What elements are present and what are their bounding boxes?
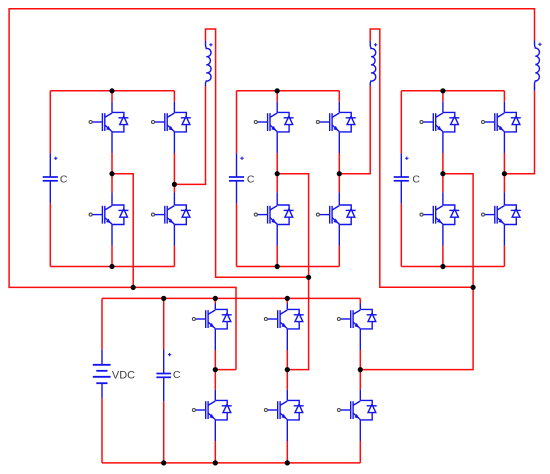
wire inverter positive DC rail [102, 297, 360, 299]
wire module3 leg2 midpoint segment [503, 153, 505, 192]
wire module2 left bus lower (from capacitor) [236, 203, 238, 266]
wire phase-A midpoint to riser [215, 369, 236, 371]
junction module2 top rail / leg1 [275, 88, 280, 93]
wire module1 left bus upper (to capacitor) [49, 91, 51, 154]
junction phase C midpoint [358, 367, 363, 372]
gate terminal of IGBT module1 upper-right [152, 121, 155, 124]
wire module1 leg2 rail to upper IGBT collector [173, 91, 175, 102]
gate terminal of IGBT inverter phase C upper [337, 318, 340, 321]
junction node L2 / H3 leg1 / phase-C [471, 285, 476, 290]
wire module3 top DC rail [401, 90, 504, 92]
junction phase B midpoint [285, 367, 290, 372]
dc source VDC [93, 350, 111, 399]
wire module1 top DC rail [50, 90, 174, 92]
inductor L2 [370, 41, 376, 86]
wire inductor L3 bottom lead down to H3 leg2 midpoint [504, 91, 534, 174]
wire module2 leg2 lower IGBT emitter to rail [338, 246, 340, 267]
IGBT module3 upper-right [485, 102, 521, 153]
IGBT module2 lower-right [320, 192, 356, 245]
IGBT module1 upper-left [92, 102, 128, 153]
svg-text:C: C [412, 174, 420, 186]
wire module2 leg2 rail to upper IGBT collector [338, 91, 340, 102]
polarity marker capacitor module3 [405, 157, 408, 160]
wire module3 leg2 rail to upper IGBT collector [503, 91, 505, 102]
inductor L1 [206, 41, 212, 86]
svg-text:C: C [173, 369, 181, 381]
capacitor C module1 [43, 153, 58, 203]
junction module3 bottom rail / leg1 [440, 264, 445, 269]
wire module2 leg1 midpoint segment [276, 153, 278, 192]
gate terminal of IGBT module1 lower-right [152, 213, 155, 216]
IGBT inverter phase C upper [341, 304, 377, 351]
wire module1 leg2 lower IGBT emitter to rail [173, 246, 175, 267]
wire module1 left bus lower (from capacitor) [49, 203, 51, 266]
gate terminal of IGBT module1 lower-left [89, 213, 92, 216]
junction inverter bottom rail / phase B [285, 460, 290, 465]
junction module2 bottom rail / leg1 [275, 264, 280, 269]
junction phase-A node / H1 leg1 output [131, 285, 136, 290]
junction module1 bottom rail / leg1 [109, 264, 114, 269]
svg-text:C: C [60, 174, 68, 186]
svg-text:VDC: VDC [112, 369, 135, 381]
svg-text:C: C [247, 174, 255, 186]
wire module2 leg1 rail to upper IGBT collector [276, 91, 278, 102]
junction module3 leg1 midpoint [440, 171, 445, 176]
junction module1 leg2 midpoint [172, 182, 177, 187]
IGBT module3 upper-left [423, 102, 459, 153]
wire H1 leg1 output down to phase-A node [112, 174, 133, 288]
wire inverter phase C midpoint segment [359, 350, 361, 390]
wire module1 leg2 midpoint segment [173, 153, 175, 192]
IGBT inverter phase A lower [196, 390, 232, 441]
wire inverter phase A rail to upper IGBT [214, 298, 216, 303]
wire module3 leg2 lower IGBT emitter to rail [503, 246, 505, 267]
junction inverter top rail / phase A [213, 296, 218, 301]
wire module3 leg1 midpoint segment [442, 153, 444, 192]
gate terminal of IGBT inverter phase A lower [192, 409, 195, 412]
IGBT inverter phase B lower [268, 390, 304, 441]
wire inverter phase C lower IGBT to rail [359, 441, 361, 463]
wire module1 bottom DC rail [50, 266, 174, 268]
junction inverter top rail / capacitor [161, 296, 166, 301]
gate terminal of IGBT module3 upper-right [482, 121, 485, 124]
IGBT module2 lower-left [258, 192, 294, 245]
wire module2 leg1 lower IGBT emitter to rail [276, 246, 278, 267]
junction phase A midpoint [213, 367, 218, 372]
IGBT module1 upper-right [155, 102, 191, 153]
wire inductor L1 link: up over U-bend, down right leg to node at (308.6,277.3) [206, 29, 309, 277]
wire inverter phase C rail to upper IGBT [359, 298, 361, 303]
wire module2 bottom DC rail [237, 266, 340, 268]
polarity marker inductor L2 [374, 43, 377, 46]
junction inverter bottom rail / phase A [213, 460, 218, 465]
junction module2 leg2 midpoint [337, 171, 342, 176]
wire inverter phase B lower IGBT to rail [286, 441, 288, 463]
wire DC-link capacitor bottom lead [163, 401, 165, 463]
gate terminal of IGBT module3 lower-right [482, 213, 485, 216]
inductor L3 blue tail [534, 86, 536, 91]
wire phase-A output loop: up, left along y=287, up left edge, along top edge to inductor L3 [9, 9, 534, 370]
junction inverter bottom rail / capacitor [161, 460, 166, 465]
wire inverter phase B midpoint segment [286, 350, 288, 390]
inductor L3 [535, 41, 540, 87]
IGBT module2 upper-left [258, 102, 294, 153]
polarity marker inductor L3 [538, 43, 541, 46]
wire inverter phase A lower IGBT to rail [214, 441, 216, 463]
gate terminal of IGBT module2 upper-left [254, 121, 257, 124]
gate terminal of IGBT module3 lower-left [420, 213, 423, 216]
wire module1 leg1 midpoint segment [111, 153, 113, 192]
IGBT inverter phase C lower [341, 390, 377, 441]
wire inductor L2 link: up over U-bend, down right leg to node at (473,287) [370, 29, 473, 287]
IGBT module3 lower-right [485, 192, 521, 245]
wire H2 leg1 output down to node (308.6,277.3) [277, 174, 308, 278]
wire module1 leg1 lower IGBT emitter to rail [111, 246, 113, 267]
junction node L1 / H2 leg1 / phase-B [306, 275, 311, 280]
wire module2 top DC rail [237, 90, 340, 92]
wire DC-link capacitor top lead [163, 298, 165, 349]
wire module2 leg2 midpoint segment [338, 153, 340, 192]
wire inverter negative DC rail [102, 462, 360, 464]
gate terminal of IGBT inverter phase C lower [337, 409, 340, 412]
gate terminal of IGBT inverter phase A upper [192, 318, 195, 321]
wire module3 left bus upper (to capacitor) [400, 91, 402, 154]
wire inductor L1 bottom lead to H1 leg2 midpoint [174, 86, 205, 184]
polarity marker capacitor module2 [240, 157, 243, 160]
wire VDC source bottom lead [101, 398, 103, 463]
gate terminal of IGBT module1 upper-left [89, 121, 92, 124]
wire module3 leg1 rail to upper IGBT collector [442, 91, 444, 102]
wire inductor L2 bottom lead to H2 leg2 midpoint [339, 86, 370, 174]
polarity marker inductor L1 [209, 43, 212, 46]
IGBT module3 lower-left [423, 192, 459, 245]
polarity marker dc-link capacitor [168, 353, 171, 356]
wire VDC source top lead [101, 298, 103, 349]
gate terminal of IGBT module2 lower-right [316, 213, 319, 216]
junction module1 leg1 midpoint [109, 171, 114, 176]
gate terminal of IGBT module3 upper-left [420, 121, 423, 124]
wire phase-B midpoint riser to node (308.6,277.3) [287, 277, 308, 369]
wire module3 left bus lower (from capacitor) [400, 203, 402, 266]
wire inverter phase B rail to upper IGBT [286, 298, 288, 303]
wire phase-C midpoint riser to node (473,287) [360, 287, 473, 369]
capacitor C module2 [229, 153, 244, 203]
polarity marker capacitor module1 [54, 157, 57, 160]
wire module1 leg1 rail to upper IGBT collector [111, 91, 113, 102]
wire H3 leg1 output down to node (473,287) [443, 174, 473, 288]
junction inverter top rail / phase B [285, 296, 290, 301]
junction module2 leg1 midpoint [275, 171, 280, 176]
IGBT inverter phase A upper [196, 304, 232, 351]
IGBT inverter phase B upper [268, 304, 304, 351]
wire module2 left bus upper (to capacitor) [236, 91, 238, 154]
junction module3 top rail / leg1 [440, 88, 445, 93]
gate terminal of IGBT module2 lower-left [254, 213, 257, 216]
capacitor C module3 [394, 153, 409, 203]
wire inverter phase A midpoint segment [214, 350, 216, 390]
IGBT module2 upper-right [320, 102, 356, 153]
gate terminal of IGBT module2 upper-right [316, 121, 319, 124]
gate terminal of IGBT inverter phase B upper [264, 318, 267, 321]
IGBT module1 lower-right [155, 192, 191, 245]
IGBT module1 lower-left [92, 192, 128, 245]
capacitor C dc-link [156, 350, 171, 402]
gate terminal of IGBT inverter phase B lower [264, 409, 267, 412]
junction module3 leg2 midpoint [502, 171, 507, 176]
junction module1 top rail / leg1 [109, 88, 114, 93]
wire module3 leg1 lower IGBT emitter to rail [442, 246, 444, 267]
wire module3 bottom DC rail [401, 266, 504, 268]
